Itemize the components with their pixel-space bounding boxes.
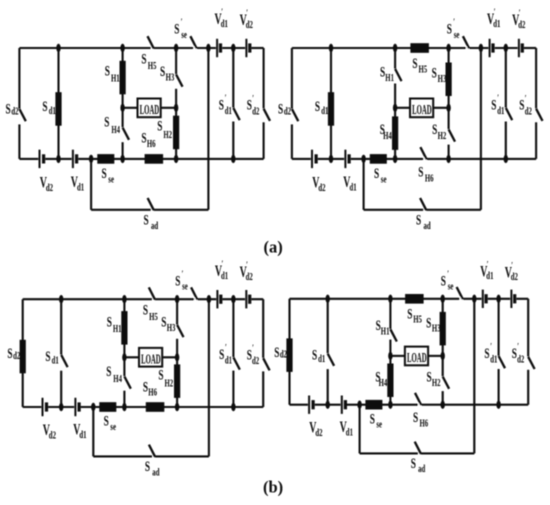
svg-text:S: S [104, 113, 109, 130]
svg-text:se: se [108, 173, 114, 185]
svg-text:S: S [407, 305, 412, 322]
svg-text:S: S [42, 98, 47, 115]
svg-text:S: S [426, 314, 431, 331]
svg-text:H5: H5 [148, 60, 157, 72]
svg-text:H4: H4 [383, 130, 392, 142]
svg-text:S: S [432, 64, 437, 81]
svg-text:′: ′ [225, 93, 227, 103]
svg-text:d1: d1 [221, 18, 228, 30]
svg-text:H1: H1 [113, 322, 122, 334]
svg-text:d1: d1 [346, 426, 353, 438]
svg-text:′: ′ [447, 269, 449, 279]
svg-text:H5: H5 [419, 63, 428, 75]
svg-text:S: S [312, 346, 317, 363]
svg-text:S: S [174, 20, 179, 37]
svg-text:′: ′ [181, 17, 183, 27]
svg-text:se: se [182, 280, 188, 292]
svg-text:S: S [412, 55, 417, 72]
svg-text:S: S [158, 366, 163, 383]
svg-text:d2: d2 [11, 105, 18, 117]
svg-text:S: S [370, 410, 375, 427]
svg-text:H3: H3 [432, 322, 441, 334]
svg-text:d1: d1 [79, 429, 86, 441]
svg-text:′: ′ [246, 8, 248, 18]
svg-text:′: ′ [519, 8, 521, 18]
svg-text:S: S [161, 313, 166, 330]
svg-text:ad: ad [151, 220, 158, 232]
svg-text:′: ′ [221, 7, 223, 17]
svg-text:S: S [491, 96, 496, 113]
svg-text:S: S [519, 96, 524, 113]
svg-text:′: ′ [182, 269, 184, 279]
svg-text:d1: d1 [493, 18, 500, 30]
svg-text:(b): (b) [263, 478, 283, 497]
svg-text:′: ′ [517, 342, 519, 352]
svg-text:′: ′ [525, 93, 527, 103]
svg-text:H6: H6 [425, 172, 434, 184]
svg-text:d2: d2 [315, 426, 322, 438]
svg-text:d1: d1 [486, 270, 493, 282]
svg-text:S: S [432, 121, 437, 138]
svg-text:H3: H3 [167, 322, 176, 334]
svg-text:′: ′ [252, 93, 254, 103]
svg-text:H1: H1 [385, 72, 394, 84]
svg-text:se: se [454, 29, 460, 41]
svg-text:H1: H1 [111, 72, 120, 84]
svg-text:d2: d2 [318, 182, 325, 194]
svg-text:d2: d2 [525, 105, 532, 117]
svg-text:S: S [247, 346, 252, 363]
svg-text:S: S [7, 345, 12, 362]
svg-text:′: ′ [497, 93, 499, 103]
svg-text:d1: d1 [318, 353, 325, 365]
svg-text:S: S [143, 378, 148, 395]
svg-text:d2: d2 [280, 348, 287, 360]
svg-text:ad: ad [424, 220, 431, 232]
svg-text:S: S [219, 96, 224, 113]
svg-text:S: S [6, 100, 11, 117]
svg-text:H6: H6 [420, 417, 429, 429]
svg-text:S: S [145, 458, 150, 475]
svg-text:H2: H2 [432, 377, 441, 389]
svg-text:LOAD: LOAD [407, 350, 427, 365]
svg-text:S: S [274, 344, 279, 361]
svg-text:S: S [427, 368, 432, 385]
svg-text:d1: d1 [350, 181, 357, 193]
svg-text:d2: d2 [246, 271, 253, 283]
svg-text:H4: H4 [379, 377, 388, 389]
svg-text:H2: H2 [438, 130, 447, 142]
svg-text:′: ′ [487, 259, 489, 269]
svg-text:S: S [315, 98, 320, 115]
svg-text:H3: H3 [166, 71, 175, 83]
svg-text:S: S [102, 165, 107, 182]
svg-text:S: S [141, 129, 146, 146]
svg-text:H5: H5 [149, 311, 158, 323]
svg-text:H6: H6 [148, 386, 157, 398]
svg-text:S: S [160, 63, 165, 80]
svg-text:S: S [411, 455, 416, 472]
svg-text:′: ′ [494, 7, 496, 17]
svg-text:d2: d2 [246, 19, 253, 31]
svg-text:d2: d2 [517, 353, 524, 365]
svg-text:′: ′ [453, 17, 455, 27]
svg-text:d2: d2 [284, 105, 291, 117]
svg-text:S: S [376, 317, 381, 334]
svg-text:S: S [380, 63, 385, 80]
svg-text:′: ′ [225, 343, 227, 353]
svg-text:LOAD: LOAD [141, 352, 161, 367]
svg-text:S: S [418, 163, 423, 180]
svg-text:d2: d2 [49, 429, 56, 441]
svg-text:d2: d2 [252, 355, 259, 367]
svg-text:S: S [441, 272, 446, 289]
svg-text:S: S [278, 100, 283, 117]
svg-text:d1: d1 [321, 104, 328, 116]
svg-text:H5: H5 [413, 313, 422, 325]
svg-text:S: S [107, 313, 112, 330]
svg-text:LOAD: LOAD [412, 102, 432, 117]
svg-text:S: S [106, 363, 111, 380]
svg-text:H4: H4 [113, 373, 122, 385]
svg-text:H1: H1 [381, 325, 390, 337]
svg-text:d1: d1 [221, 270, 228, 282]
svg-text:d2: d2 [252, 105, 259, 117]
svg-text:d1: d1 [225, 354, 232, 366]
svg-text:H4: H4 [111, 124, 120, 136]
svg-text:se: se [181, 29, 187, 41]
svg-text:S: S [157, 117, 162, 134]
svg-text:ad: ad [418, 463, 425, 475]
svg-text:H2: H2 [165, 377, 174, 389]
svg-text:S: S [374, 165, 379, 182]
svg-text:′: ′ [246, 260, 248, 270]
svg-text:S: S [144, 211, 149, 228]
svg-text:S: S [219, 346, 224, 363]
svg-text:d1: d1 [52, 354, 59, 366]
svg-text:d1: d1 [490, 353, 497, 365]
svg-text:H6: H6 [147, 138, 156, 150]
svg-text:d1: d1 [225, 105, 232, 117]
svg-text:d2: d2 [518, 19, 525, 31]
svg-text:S: S [447, 20, 452, 37]
svg-text:se: se [376, 418, 382, 430]
svg-text:′: ′ [252, 343, 254, 353]
svg-text:d2: d2 [46, 182, 53, 194]
svg-text:′: ′ [222, 259, 224, 269]
svg-text:(a): (a) [264, 238, 283, 257]
svg-text:LOAD: LOAD [140, 102, 160, 117]
svg-text:H3: H3 [438, 73, 447, 85]
svg-text:S: S [141, 50, 146, 67]
svg-text:S: S [484, 345, 489, 362]
svg-text:S: S [512, 345, 517, 362]
svg-text:S: S [104, 412, 109, 429]
svg-text:H2: H2 [163, 128, 172, 140]
svg-text:′: ′ [511, 260, 513, 270]
svg-text:d1: d1 [49, 104, 56, 116]
svg-text:se: se [381, 173, 387, 185]
svg-text:d1: d1 [497, 105, 504, 117]
svg-text:S: S [416, 211, 421, 228]
svg-text:d2: d2 [511, 271, 518, 283]
svg-text:d2: d2 [13, 349, 20, 361]
svg-text:d1: d1 [77, 181, 84, 193]
svg-text:ad: ad [152, 466, 159, 478]
svg-text:′: ′ [490, 341, 492, 351]
svg-text:S: S [175, 272, 180, 289]
svg-text:se: se [110, 421, 116, 433]
svg-text:S: S [413, 409, 418, 426]
svg-text:S: S [105, 62, 110, 79]
svg-text:S: S [247, 96, 252, 113]
svg-text:se: se [448, 280, 454, 292]
svg-text:S: S [143, 301, 148, 318]
svg-text:S: S [45, 348, 50, 365]
